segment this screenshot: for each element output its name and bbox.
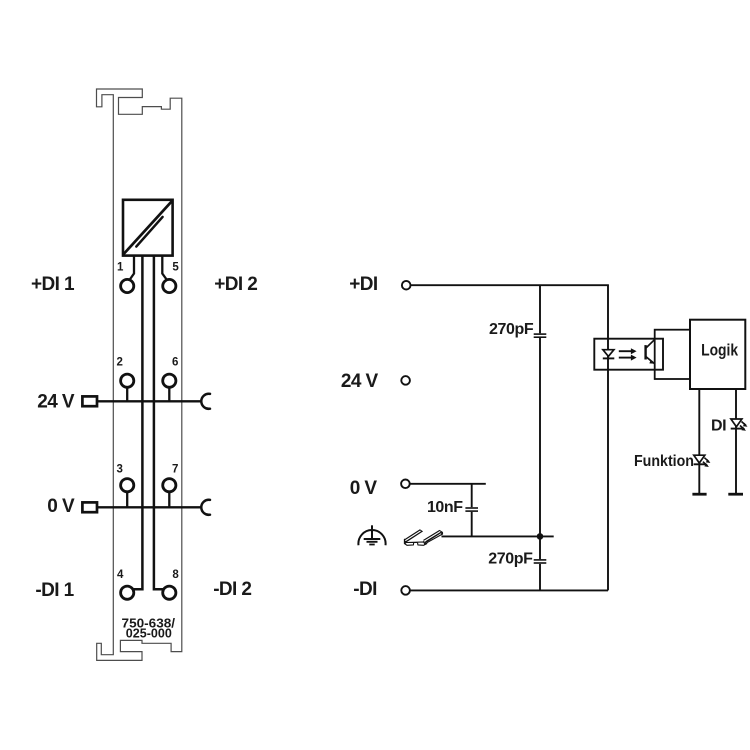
optocoupler box U1 xyxy=(594,339,663,370)
svg-text:270pF: 270pF xyxy=(489,321,534,338)
wire ground rail xyxy=(442,535,554,537)
data contacts square S1 xyxy=(123,200,173,256)
LED Funktion xyxy=(694,455,711,467)
svg-text:4: 4 xyxy=(117,569,124,581)
contact 8 xyxy=(163,586,176,599)
functional earth symbol xyxy=(358,525,385,545)
DIN carrier rail symbol xyxy=(404,529,443,545)
contact 6 xyxy=(163,374,176,387)
0V rail wire xyxy=(97,506,201,508)
svg-text:7: 7 xyxy=(172,463,178,475)
0V rail square terminal xyxy=(82,502,97,512)
module order number 750-638/025-000 xyxy=(122,615,176,640)
contact 3 stem xyxy=(126,485,128,507)
0V jumper contact arc xyxy=(201,500,210,515)
optocoupler phototransistor Q1 xyxy=(646,340,655,364)
svg-text:+DI 1: +DI 1 xyxy=(31,274,75,295)
capacitor C2 10nF plates xyxy=(465,508,478,511)
contact 2 stem xyxy=(126,381,128,402)
svg-text:2: 2 xyxy=(117,357,123,369)
optocoupler light arrow 2 xyxy=(619,355,637,361)
svg-text:5: 5 xyxy=(172,262,179,274)
LED DI xyxy=(731,419,748,431)
svg-text:-DI 2: -DI 2 xyxy=(213,579,251,600)
24V jumper contact arc xyxy=(201,394,210,409)
svg-text:+DI: +DI xyxy=(349,274,378,295)
wire +DI rail xyxy=(411,284,609,286)
svg-text:Logik: Logik xyxy=(701,340,738,359)
terminal +DI xyxy=(402,281,411,290)
svg-text:24 V: 24 V xyxy=(341,371,379,392)
svg-text:8: 8 xyxy=(172,569,179,581)
wire 10nF branch upper xyxy=(471,484,473,507)
capacitor C3 270pF plates xyxy=(534,560,547,563)
ground bar Funktion xyxy=(692,493,706,496)
terminal -DI xyxy=(401,586,410,595)
wire -DI rail xyxy=(410,589,608,591)
svg-text:DI: DI xyxy=(711,417,726,434)
wire leg bus right (pin3 to contact 8) xyxy=(154,257,166,590)
svg-text:+DI 2: +DI 2 xyxy=(214,274,257,295)
contact 4 xyxy=(121,586,134,599)
optocoupler LED D1 xyxy=(603,350,615,359)
svg-text:24 V: 24 V xyxy=(37,391,75,412)
svg-text:1: 1 xyxy=(117,262,124,274)
terminal 0V xyxy=(401,480,410,489)
svg-text:025-000: 025-000 xyxy=(126,625,172,640)
24V rail wire xyxy=(97,400,201,402)
wire leg to contact 5 xyxy=(162,257,166,280)
contact 7 xyxy=(163,479,176,492)
optocoupler light arrow 1 xyxy=(619,348,637,354)
wire filter branch A lower xyxy=(539,564,541,591)
svg-text:270pF: 270pF xyxy=(488,551,533,568)
wire 10nF branch lower xyxy=(471,512,473,537)
junction dot xyxy=(537,533,544,540)
svg-text:-DI: -DI xyxy=(353,579,377,600)
contact 3 xyxy=(121,479,134,492)
wire filter branch A middle xyxy=(539,338,541,559)
svg-text:3: 3 xyxy=(117,463,123,475)
24V rail square terminal xyxy=(82,396,97,406)
wire 0V stub xyxy=(410,483,486,485)
svg-text:0 V: 0 V xyxy=(350,478,378,499)
contact 7 stem xyxy=(168,485,170,507)
svg-text:-DI 1: -DI 1 xyxy=(35,580,74,601)
wire input branch B (through optocoupler LED) xyxy=(607,285,609,590)
wire filter branch A upper xyxy=(539,285,541,333)
wire leg to contact 1 xyxy=(130,257,134,280)
svg-text:10nF: 10nF xyxy=(427,499,463,516)
logic block U2 xyxy=(690,320,745,389)
contact 5 xyxy=(163,279,176,292)
contact 2 xyxy=(121,374,134,387)
ground bar DI xyxy=(728,493,743,496)
terminal 24V xyxy=(401,376,410,385)
capacitor C1 270pF plates xyxy=(534,334,547,337)
module outline (750 series side profile) xyxy=(97,89,182,660)
svg-text:0 V: 0 V xyxy=(47,496,75,517)
wire logic to DI LED xyxy=(735,389,737,494)
svg-text:Funktion: Funktion xyxy=(634,453,694,470)
contact 6 stem xyxy=(168,381,170,402)
coupler output frame xyxy=(655,330,690,379)
svg-text:6: 6 xyxy=(172,357,178,369)
wire logic to Funktion LED xyxy=(698,389,700,494)
wire leg bus left (pin2 to contact 4) xyxy=(130,257,142,590)
contact 1 xyxy=(121,279,134,292)
